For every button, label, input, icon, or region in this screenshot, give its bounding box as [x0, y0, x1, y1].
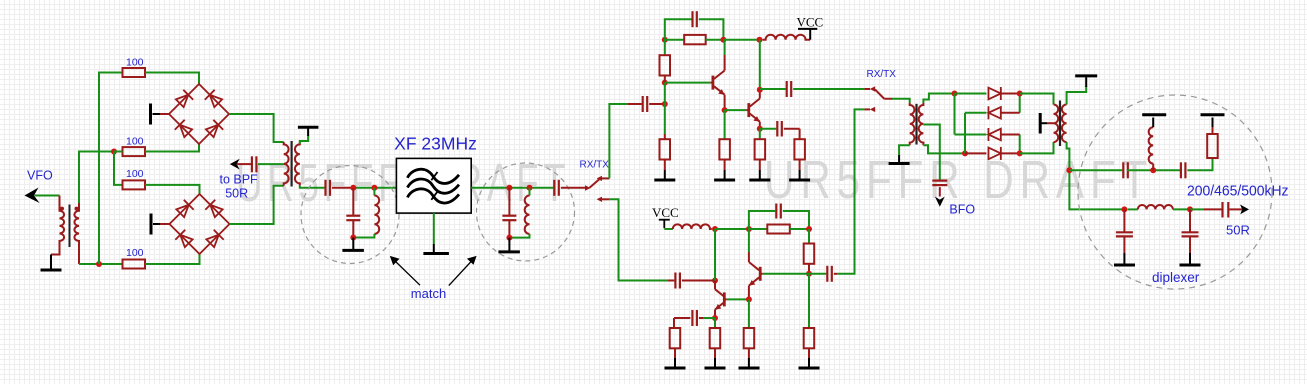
resistor Q2 emitter — [759, 129, 761, 139]
node match-L ground — [350, 235, 356, 241]
emitter bypass cap A2 — [703, 317, 715, 319]
wire Q1 collector to rail — [724, 55, 726, 71]
svg-text:50R: 50R — [1226, 223, 1250, 238]
wire A1 output to switch2 — [793, 88, 864, 90]
diode D2 row2 — [965, 106, 1020, 119]
svg-text:XF 23MHz: XF 23MHz — [394, 134, 477, 154]
wire Q1 emitter to Q2 base — [725, 109, 747, 111]
diplexer output cap — [1223, 202, 1229, 218]
switch2 SPDT — [870, 86, 875, 112]
svg-text:100: 100 — [126, 136, 144, 148]
diode D1 row1 — [955, 87, 1020, 100]
node C diode quad — [1017, 91, 1023, 97]
feedback resistor A2 — [749, 228, 767, 230]
port arrow to BPF with cap — [230, 159, 240, 170]
wire filter output to match-R — [471, 187, 553, 189]
A1 output cap — [760, 88, 786, 90]
wire T3 secondary bottom to node B — [923, 145, 965, 153]
resistor Q4 emitter — [748, 299, 750, 328]
shunt inductor match-R — [509, 188, 529, 238]
BFO tap from T3 center — [923, 125, 939, 180]
dashed circle match-L — [301, 166, 399, 264]
resistor A1 bias lower — [664, 104, 666, 134]
switch1 SPDT — [585, 176, 602, 202]
svg-text:VFO: VFO — [27, 169, 53, 183]
crystal filter XF 23MHz — [396, 158, 471, 213]
wire node D to T4 primary bottom — [1020, 142, 1054, 153]
arrow match left — [394, 260, 420, 285]
transformer T3 — [910, 103, 924, 145]
ground A1 base chain — [654, 160, 675, 181]
VCC symbol A1 — [797, 15, 824, 40]
shunt capacitor match-L — [346, 188, 360, 238]
transformer T4 — [1054, 101, 1067, 147]
svg-text:BFO: BFO — [949, 203, 975, 217]
diplexer shunt cap 1 — [1114, 209, 1135, 265]
resistor A1 bias upper — [664, 40, 666, 56]
diode D3 row3 — [955, 128, 1020, 141]
wire Q1 emitter to node — [724, 95, 726, 110]
dashed circle diplexer — [1078, 95, 1272, 289]
sideways ground T4 primary tap — [1040, 113, 1053, 134]
wire Q2 collector to rail — [759, 90, 761, 99]
wire R3 to bridge2 top — [145, 185, 200, 194]
capacitor A2 input — [675, 273, 680, 289]
wire base node to Q1 — [665, 82, 711, 84]
node B diode quad — [962, 150, 968, 156]
wire node to R2 — [114, 151, 123, 153]
resistor Q1 emitter — [724, 110, 726, 139]
resistor 100 row1 — [123, 68, 146, 77]
wire cap to base node — [649, 103, 665, 105]
wire to output cap — [1190, 208, 1203, 210]
node Q1 emitter — [722, 107, 728, 113]
port arrow VFO — [25, 188, 40, 204]
transformer T2 — [284, 141, 300, 187]
VCC symbol A2 — [652, 205, 679, 228]
svg-text:match: match — [411, 286, 446, 301]
diplexer series cap2 — [1181, 162, 1186, 178]
resistor 100 row2 — [123, 147, 146, 156]
feedback cap A2 loop — [749, 211, 775, 229]
wire VFO arrow to T1 primary top — [35, 195, 60, 197]
svg-text:VCC: VCC — [797, 15, 824, 30]
diode quad vertical buses — [954, 94, 956, 135]
svg-text:to BPF: to BPF — [219, 173, 258, 187]
wire switch2 pole to T3 — [884, 98, 892, 100]
BFO coupling cap — [932, 181, 947, 186]
diode ring mixer bridge 2 — [170, 194, 230, 254]
wire cap to match node — [332, 187, 353, 189]
diplexer shunt coil to inverted ground — [1142, 115, 1166, 171]
node diplexer low cap2 — [1187, 206, 1193, 212]
ground T3 primary — [889, 145, 910, 163]
wire Q3 emitter — [714, 310, 716, 318]
A2 output cap — [809, 273, 826, 275]
BFO port arrow — [939, 187, 941, 196]
diode D4 row4 — [965, 147, 1020, 160]
wire cap to T2 primary center tap — [258, 163, 284, 165]
wire switch1 TX contact to amp2 input — [601, 198, 609, 200]
wire switch2 TX contact down — [864, 108, 870, 110]
shunt capacitor match-R — [502, 188, 516, 238]
node junction — [111, 149, 117, 155]
transformer T1 — [51, 196, 79, 265]
diplexer series inductor — [1128, 208, 1138, 210]
ground match-R — [498, 238, 520, 252]
capacitor series to switch1 — [554, 180, 559, 196]
ground match-L — [342, 238, 364, 251]
resistor A2 collector divider upper — [808, 229, 810, 244]
node Q2 collector out — [757, 87, 763, 93]
RF choke A2 — [664, 228, 673, 230]
wire Q4 base to divider — [763, 273, 809, 275]
svg-text:100: 100 — [126, 57, 144, 69]
transistor Q4 — [749, 262, 763, 286]
ground bypass leg A2 — [665, 348, 686, 368]
ground at bridge1 left — [151, 104, 170, 125]
resistor bypass leg A1 — [799, 129, 801, 139]
node A2 rail right — [806, 226, 812, 232]
ground Q3 emitter — [705, 348, 726, 368]
node A2 rail Q4 — [746, 226, 752, 232]
node A2 divider mid — [806, 271, 812, 277]
node match-R cap — [506, 185, 512, 191]
capacitor series into match — [326, 180, 331, 196]
ground bypass leg A1 — [789, 160, 810, 181]
svg-text:RX/TX: RX/TX — [580, 160, 610, 171]
diode ring mixer bridge 1 — [169, 84, 229, 144]
shunt inductor match-L — [353, 188, 379, 238]
ground under T1 — [41, 255, 62, 271]
transistor Q3 — [715, 289, 727, 309]
svg-text:UR5FFR DRAFT: UR5FFR DRAFT — [764, 150, 1153, 210]
node A2 rail Q3 — [712, 226, 718, 232]
svg-text:100: 100 — [126, 247, 144, 259]
inverted ground above T2 secondary — [298, 127, 319, 144]
node diplexer shunt coil — [1150, 167, 1156, 173]
diplexer shunt cap 2 — [1180, 209, 1201, 265]
filter ground — [423, 213, 449, 253]
inverted ground T4 secondary top — [1067, 76, 1098, 105]
wire switch1 RX contact up to amp1 input — [601, 177, 609, 179]
feedback cap A1 top loop — [665, 19, 692, 40]
wire to diplexer cap1 — [1069, 169, 1122, 171]
wire T4 secondary bottom to diplexer — [1067, 142, 1122, 209]
node A2 input / Q3 collector — [712, 278, 718, 284]
node match-L coil — [371, 185, 377, 191]
wire R1 to bridge1 top — [145, 73, 199, 85]
ground Q2 emitter — [749, 160, 770, 181]
emitter bypass cap A1 — [760, 128, 777, 130]
dashed circle match-R — [477, 163, 575, 261]
wire bridge1 output to T2 primary top — [229, 114, 284, 142]
ground Q4 emitter — [739, 348, 760, 368]
wire T1 secondary top to node — [79, 152, 114, 204]
rail wire to choke — [723, 39, 759, 41]
resistor bypass leg A2 — [673, 318, 675, 328]
wire Q3 base to Q4 emitter node — [727, 298, 749, 300]
node Q2 emitter — [757, 126, 763, 132]
capacitor A1 input — [643, 96, 648, 112]
ground at bridge2 left — [151, 214, 170, 235]
node diplexer low cap1 — [1121, 206, 1127, 212]
svg-text:diplexer: diplexer — [1152, 270, 1200, 285]
wire Q4 emitter to node — [748, 286, 750, 300]
wire T3 secondary top to node A — [923, 94, 954, 104]
node A1 base — [662, 80, 668, 86]
svg-text:RX/TX: RX/TX — [867, 69, 897, 80]
ground A2 divider — [799, 348, 820, 368]
node match-R coil — [527, 185, 533, 191]
resistor Q3 emitter — [714, 318, 716, 328]
node A1 rail Q2 — [757, 37, 763, 43]
node A1 base chain top — [662, 37, 668, 43]
node A diode quad — [952, 91, 958, 97]
wire Q3 collector to rail — [714, 229, 716, 281]
capacitor at to-BPF — [252, 156, 257, 172]
node A1 collector rail — [720, 37, 726, 43]
svg-text:VCC: VCC — [652, 205, 679, 220]
diplexer series cap1 — [1123, 162, 1128, 178]
wire R2 to bridge1 bottom — [145, 144, 199, 152]
ground Q1 emitter — [714, 160, 735, 181]
node Q3 emitter — [712, 315, 718, 321]
wire cap to switch1 pole — [561, 187, 586, 189]
node match-R ground — [506, 235, 512, 241]
arrow match right — [449, 260, 473, 286]
svg-text:200/465/500kHz: 200/465/500kHz — [1187, 182, 1289, 199]
diplexer resistor to inverted ground — [1201, 115, 1225, 158]
node diplexer top branch — [1066, 167, 1072, 173]
svg-text:50R: 50R — [225, 187, 248, 201]
resistor 100 row4 — [123, 260, 146, 269]
output port arrow 50R — [1229, 208, 1242, 210]
node A1 input — [662, 101, 668, 107]
wire bridge2 output to T2 primary bottom — [230, 186, 284, 224]
transistor Q2 — [746, 99, 760, 122]
wire T1 secondary bottom to node2 — [79, 263, 123, 265]
node D diode quad — [1017, 150, 1023, 156]
wire R4 to bridge2 bottom — [145, 254, 200, 264]
wire vertical bus R1-node2 — [99, 73, 123, 265]
wire node down to R3 row — [114, 152, 123, 185]
resistor 100 row3 — [123, 180, 146, 189]
RF choke A1 to VCC — [763, 35, 811, 40]
wire T2 secondary bottom to series cap — [300, 186, 325, 188]
resistor A2 divider lower — [808, 274, 810, 328]
wire Q3 collector vertical — [714, 281, 716, 290]
node Q4 emitter — [746, 296, 752, 302]
svg-text:100: 100 — [126, 168, 144, 180]
node match-L cap — [350, 185, 356, 191]
node junction 2 — [96, 261, 102, 267]
wire node C to T4 primary top — [1020, 94, 1054, 105]
rail wire — [715, 228, 749, 230]
wire Q4 collector to rail — [748, 252, 750, 262]
wire Q2 emitter — [759, 122, 761, 129]
feedback resistor A1 — [665, 39, 684, 41]
transistor Q1 — [710, 71, 724, 95]
